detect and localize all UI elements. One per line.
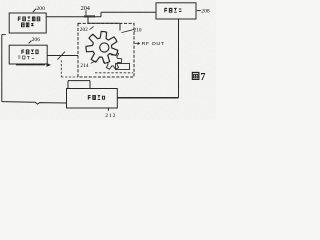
box 206 text line2	[18, 56, 34, 59]
box 200 (power supply unit, top-left)	[9, 13, 46, 33]
wire: lower run to magnetron	[88, 22, 120, 24]
output coupling box	[116, 64, 130, 70]
wire: drop into dashed box	[119, 23, 121, 30]
figure caption 图7	[192, 72, 199, 79]
wire: bottom run controller to corner	[117, 97, 178, 99]
dashed stub vertical (left extension)	[60, 60, 62, 77]
hook at top of feedback wire	[2, 34, 6, 36]
paper noise overlay	[0, 0, 216, 120]
RF OUT arrow	[135, 42, 140, 44]
wire: junction drop at x=88	[87, 17, 89, 24]
wire: riser to top run	[100, 12, 102, 16]
label 214 leader arrow	[91, 61, 96, 64]
label 202 leader	[90, 26, 94, 29]
label 208 leader dash	[197, 10, 201, 12]
box 200 text line1	[18, 17, 40, 21]
gear rotor 210 (magnetron anode)	[86, 31, 118, 63]
box 206 text line1	[22, 50, 39, 54]
dashed inner bottom line	[95, 72, 133, 74]
label 200 leader	[33, 9, 36, 13]
dashed stub horizontal (left extension)	[61, 76, 78, 78]
dashed enclosure 202 (magnetron assembly)	[78, 23, 134, 77]
wire: box206 to dashed box	[47, 55, 78, 57]
wire: dashed box bottom to controller (staircase)	[68, 81, 90, 89]
box 208 text	[165, 8, 182, 12]
secondary rotor gear (overlapping, lower-right)	[103, 52, 121, 69]
left feedback wire horizontal into controller	[2, 102, 67, 105]
box 200 text line2	[22, 23, 34, 27]
slash tick across wire	[58, 52, 66, 60]
box 208 (top-right)	[156, 3, 196, 19]
arrowhead	[47, 63, 52, 67]
wire: box200 to junction	[46, 16, 101, 18]
gear center hole	[100, 43, 109, 52]
box 206 (left-middle)	[9, 45, 47, 64]
box 212 (controller, bottom)	[67, 89, 118, 109]
left feedback wire vertical	[1, 34, 3, 101]
box 212 text	[88, 96, 105, 100]
arrow under box 206	[16, 64, 45, 66]
wire: top run into box 208	[101, 11, 156, 13]
label 204 leader	[85, 10, 87, 15]
label 210 leader	[122, 30, 134, 33]
label 212 leader tick	[107, 108, 109, 110]
wire: box208 down to bottom-right corner	[178, 19, 180, 98]
wire blob (scan thick part)	[84, 15, 95, 17]
label 206 leader	[29, 41, 32, 44]
